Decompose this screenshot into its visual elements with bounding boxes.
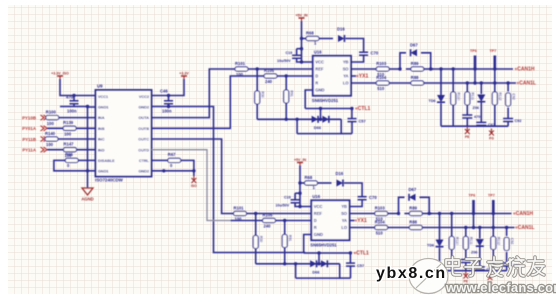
svg-text:100n: 100n — [67, 109, 77, 114]
svg-text:OUTD: OUTD — [138, 148, 149, 152]
svg-text:PE: PE — [465, 135, 470, 139]
svg-text:OUTA: OUTA — [139, 116, 150, 120]
svg-text:IND: IND — [98, 148, 105, 152]
svg-text:GND1: GND1 — [98, 106, 109, 110]
svg-text:FG: FG — [489, 137, 494, 141]
svg-text:C92: C92 — [515, 119, 522, 123]
svg-text:TP6: TP6 — [470, 49, 477, 53]
svg-text:D: D — [315, 74, 318, 79]
svg-text:AGND: AGND — [81, 197, 93, 202]
svg-text:SO: SO — [343, 67, 350, 72]
svg-text:OUTB: OUTB — [138, 127, 149, 131]
svg-text:CTRL: CTRL — [139, 159, 150, 163]
svg-text:R91: R91 — [290, 91, 294, 97]
svg-text:R112: R112 — [498, 93, 502, 101]
svg-text:REF: REF — [315, 67, 324, 72]
svg-text:GND2: GND2 — [138, 170, 149, 174]
svg-text:240: 240 — [265, 79, 273, 84]
svg-text:100: 100 — [64, 132, 72, 137]
svg-text:Z06: Z06 — [473, 106, 480, 110]
svg-text:R101: R101 — [235, 61, 246, 66]
svg-text:OUTC: OUTC — [138, 138, 149, 142]
svg-text:LO: LO — [343, 81, 350, 86]
svg-text:10u/50V: 10u/50V — [277, 59, 291, 63]
svg-text:GND2: GND2 — [138, 106, 149, 110]
svg-text:R66: R66 — [65, 152, 73, 157]
svg-text:«CAN1L: «CAN1L — [517, 81, 536, 87]
svg-text:YA: YA — [343, 74, 348, 79]
svg-text:D16: D16 — [337, 27, 345, 32]
svg-text:TD6: TD6 — [429, 99, 436, 103]
svg-text:47u: 47u — [66, 94, 74, 99]
svg-text:DISABLE: DISABLE — [98, 159, 115, 163]
svg-text:VCC2: VCC2 — [139, 95, 149, 99]
svg-text:D67: D67 — [410, 43, 418, 48]
svg-text:100: 100 — [47, 121, 55, 126]
svg-text:R110: R110 — [457, 93, 461, 101]
svg-text:D66: D66 — [314, 125, 322, 130]
svg-text:www.elecfans.com: www.elecfans.com — [445, 280, 556, 295]
svg-text:ISO7240CDW: ISO7240CDW — [95, 178, 124, 183]
svg-text:R67: R67 — [168, 152, 176, 157]
svg-text:GND: GND — [315, 88, 324, 93]
svg-text:R100: R100 — [46, 109, 57, 114]
svg-text:+3.3V: +3.3V — [179, 72, 189, 76]
svg-text:INB: INB — [98, 127, 105, 131]
svg-text:«YX1: «YX1 — [356, 74, 368, 80]
svg-text:C92: C92 — [512, 94, 516, 100]
svg-text:C70: C70 — [371, 51, 379, 56]
svg-text:«CAN1H: «CAN1H — [515, 67, 535, 73]
svg-text:VCC: VCC — [315, 60, 324, 65]
svg-text:C19: C19 — [286, 51, 293, 55]
svg-text:R147: R147 — [64, 142, 75, 147]
svg-text:R89: R89 — [411, 61, 419, 66]
svg-text:R140: R140 — [45, 131, 56, 136]
svg-text:470: 470 — [474, 115, 480, 119]
svg-text:INA: INA — [98, 116, 105, 120]
svg-text:PY11A: PY11A — [22, 148, 36, 153]
svg-text:510: 510 — [377, 86, 385, 91]
svg-text:GND1: GND1 — [98, 170, 109, 174]
svg-text:100: 100 — [46, 142, 54, 147]
svg-text:R68: R68 — [306, 30, 314, 35]
svg-text:PY11B: PY11B — [22, 137, 36, 142]
svg-text:U9: U9 — [97, 84, 103, 89]
svg-text:+3.3V_ISO: +3.3V_ISO — [51, 72, 69, 76]
svg-text:ybx8.cn: ybx8.cn — [376, 265, 447, 282]
svg-text:PY01A: PY01A — [22, 126, 37, 131]
svg-text:R104: R104 — [376, 75, 387, 80]
svg-text:R88: R88 — [411, 75, 419, 80]
svg-text:R139: R139 — [63, 120, 74, 125]
svg-text:C57: C57 — [359, 119, 366, 124]
svg-text:INC: INC — [98, 138, 105, 142]
svg-text:YB: YB — [343, 60, 349, 65]
svg-text:R: R — [315, 81, 318, 86]
svg-text:R103: R103 — [376, 61, 387, 66]
svg-text:R105: R105 — [264, 68, 275, 73]
svg-text:100n: 100n — [162, 109, 172, 114]
svg-text:TP7: TP7 — [490, 49, 497, 53]
svg-text:ISO: ISO — [191, 184, 197, 188]
svg-text:U16: U16 — [314, 49, 322, 54]
svg-text:C46: C46 — [160, 89, 168, 94]
svg-text:R111: R111 — [471, 93, 475, 101]
svg-text:SN65HVD251: SN65HVD251 — [312, 98, 339, 103]
svg-text:PY10B: PY10B — [22, 115, 36, 120]
svg-text:«CTL1: «CTL1 — [355, 106, 371, 112]
svg-text:+5V_IN: +5V_IN — [295, 14, 307, 18]
svg-text:R30: R30 — [261, 92, 265, 98]
svg-text:VCC1: VCC1 — [98, 95, 108, 99]
